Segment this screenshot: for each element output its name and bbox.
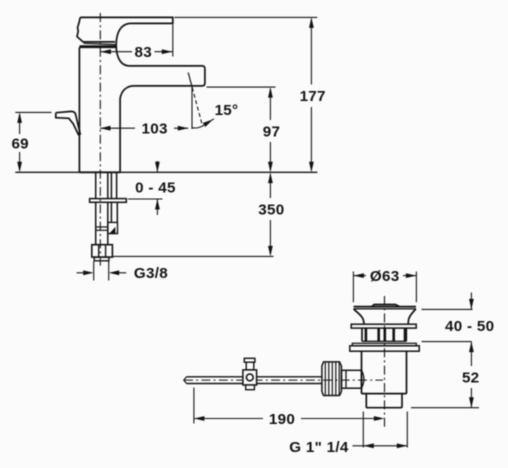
- hose 1 joint bands: [96, 226, 108, 228]
- basin flange upper band: [352, 343, 416, 346]
- shank tubes between body and flange: [95, 173, 97, 199]
- tap base bottom edge: [79, 171, 120, 173]
- rod centreline: [184, 379, 383, 381]
- svg-text:350: 350: [258, 202, 284, 219]
- vertical ray at aerator: [191, 87, 193, 129]
- supply hose 1: [95, 202, 97, 244]
- svg-text:83: 83: [135, 44, 153, 61]
- dimension 40 - 50: [422, 293, 473, 342]
- svg-text:15°: 15°: [215, 102, 239, 119]
- centerline of tap body (dash-dot): [99, 13, 101, 268]
- pull rod: [187, 376, 322, 378]
- 15-degree ray dashed part: [192, 88, 203, 127]
- tailpiece: [366, 394, 402, 408]
- plug cap raised centre: [372, 305, 399, 307]
- svg-text:97: 97: [263, 124, 281, 141]
- svg-text:0 - 45: 0 - 45: [135, 179, 176, 196]
- dimension G3/8: [77, 262, 127, 281]
- slotted cage: [362, 328, 406, 341]
- dimension G 1" 1/4: [353, 412, 408, 448]
- body left edge: [78, 47, 80, 172]
- svg-text:52: 52: [462, 369, 480, 386]
- knurled knob: [322, 362, 342, 396]
- spout: [120, 66, 205, 172]
- ball joint arc inside body: [362, 370, 364, 388]
- hose 2 cut box: [108, 222, 118, 233]
- svg-text:177: 177: [300, 88, 326, 105]
- side port nut: [342, 370, 362, 388]
- handle C-curve into body: [116, 23, 131, 66]
- clamp neck: [246, 362, 254, 370]
- svg-text:Ø63: Ø63: [370, 268, 400, 285]
- dimension 103: [100, 127, 188, 129]
- svg-text:40 - 50: 40 - 50: [445, 318, 494, 335]
- nut lower tip: [94, 257, 109, 261]
- waste body: [362, 351, 407, 393]
- side lever: [56, 111, 81, 134]
- svg-text:G 1" 1/4: G 1" 1/4: [289, 439, 349, 456]
- mounting flange: [90, 199, 127, 203]
- dimension 190: [194, 388, 380, 424]
- dimension 69: [15, 112, 51, 170]
- centerline of waste (dash-dot): [384, 296, 386, 429]
- dimension 177: [175, 17, 318, 170]
- svg-text:G3/8: G3/8: [134, 265, 168, 282]
- svg-text:103: 103: [141, 121, 167, 138]
- dimension 0 - 45: [128, 161, 163, 215]
- svg-text:69: 69: [11, 135, 29, 152]
- ring band: [351, 324, 416, 328]
- cartridge cap band lines: [84, 41, 116, 43]
- aerator 15-degree ray (solid part): [188, 73, 192, 88]
- clamp hole: [246, 374, 253, 381]
- clamp body: [243, 370, 257, 385]
- clamp screw head: [244, 358, 255, 362]
- G3/8 nut: [92, 245, 113, 257]
- dimension 97: [207, 87, 276, 170]
- dimension 15 degrees: leader arc and arrow: [193, 119, 215, 128]
- handle back wedge (left end): [77, 17, 84, 42]
- basin flange lower band: [350, 346, 419, 351]
- svg-text:190: 190: [269, 411, 295, 428]
- dimension D63: [353, 272, 416, 303]
- plug cap top disc: [354, 306, 416, 308]
- dimension 83: [100, 51, 132, 53]
- clamp lower tab: [246, 385, 255, 390]
- handle top plate: [80, 17, 173, 23]
- supply hose 2 (cut): [110, 202, 112, 222]
- dimension 52: [411, 342, 479, 408]
- mounting plane line: [15, 171, 317, 173]
- dimension 350: [113, 174, 274, 256]
- funnel sides: [354, 309, 364, 324]
